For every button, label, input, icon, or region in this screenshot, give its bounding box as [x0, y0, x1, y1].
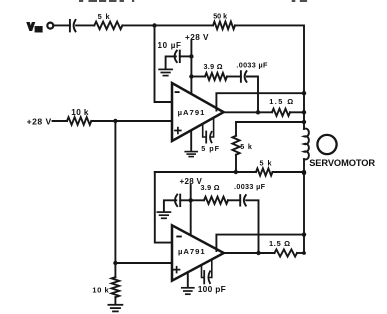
svg-text:5 k: 5 k: [260, 159, 273, 168]
resistor 5 k: [94, 12, 122, 29]
wire: [114, 263, 116, 277]
wire: [76, 24, 94, 26]
wire: [180, 55, 192, 57]
svg-text:µA791: µA791: [178, 247, 206, 256]
node B (bias divider): [113, 119, 117, 123]
op-amp U1 uA791 (upper): [172, 83, 224, 141]
wire (to lower inverting input): [155, 172, 172, 243]
svg-text:SERVOMOTOR: SERVOMOTOR: [309, 158, 375, 168]
svg-text:10 µF: 10 µF: [158, 41, 182, 50]
capacitor 10 uF (bypass): [158, 41, 182, 62]
wire: [191, 199, 204, 201]
wire: [236, 121, 304, 123]
coupling capacitor (input): [70, 20, 76, 32]
input terminal VIN: [47, 23, 53, 29]
junction: [302, 170, 306, 174]
svg-text:+28 V: +28 V: [185, 33, 209, 42]
wire: [180, 199, 191, 201]
wire (node A to upper inverting input): [155, 25, 173, 102]
wire: [191, 76, 205, 78]
svg-text:10 k: 10 k: [92, 286, 109, 295]
wire: [164, 200, 176, 211]
op-amp U2 uA791 (lower): [172, 225, 224, 280]
resistor 1.5 ohm (upper): [269, 97, 294, 116]
capacitor 100 pF (compensation): [198, 261, 226, 295]
wire: [54, 24, 70, 26]
capacitor .0033 uF (lower): [234, 182, 266, 206]
wire: [91, 120, 172, 122]
wire: [297, 252, 304, 254]
svg-text:+28 V: +28 V: [27, 117, 52, 127]
wire: [235, 155, 237, 172]
wire (snubber to output node): [247, 77, 258, 113]
junction: [302, 171, 306, 175]
junction: [302, 251, 306, 255]
servomotor body: [317, 135, 336, 154]
capacitor 5 pF (compensation): [201, 118, 220, 153]
wire (node B down to lower stage): [114, 121, 116, 263]
svg-text:1.5 Ω: 1.5 Ω: [269, 97, 294, 106]
svg-text:.0033 µF: .0033 µF: [236, 61, 268, 70]
wire (to lower non-inverting input): [115, 262, 172, 264]
wire: [273, 171, 305, 173]
ground (upper op-amp): [185, 152, 197, 157]
wire (lower output): [224, 252, 275, 254]
svg-text:5 k: 5 k: [98, 12, 111, 21]
wire (lower bootstrap to rail): [216, 235, 304, 251]
wire: [190, 185, 192, 235]
wire: [155, 24, 214, 26]
junction: [302, 91, 306, 95]
junction: [302, 110, 306, 114]
svg-text:100 pF: 100 pF: [198, 284, 226, 294]
resistor 50 k (feedback): [213, 11, 235, 29]
svg-text:5 k: 5 k: [240, 142, 252, 151]
junction: [113, 261, 117, 265]
svg-text:µA791: µA791: [178, 108, 206, 117]
wire (lower V- pin): [187, 272, 189, 287]
wire: [123, 24, 155, 26]
wire: [235, 25, 304, 128]
svg-text:10 k: 10 k: [71, 108, 89, 117]
capacitor .0033 uF (upper): [236, 61, 268, 82]
wire (upper output): [224, 111, 272, 113]
svg-text:3.9 Ω: 3.9 Ω: [201, 183, 220, 192]
resistor 3.9 ohm (upper): [204, 62, 228, 80]
wire (snubber to lower output node): [246, 200, 258, 253]
wire: [227, 76, 241, 78]
resistor 10 k (bias): [67, 108, 91, 125]
junction: [189, 54, 193, 58]
resistor 5 k (vertical): [232, 136, 252, 155]
wire: [228, 199, 240, 201]
svg-text:VIN: VIN: [28, 22, 43, 33]
svg-text:1.5 Ω: 1.5 Ω: [269, 239, 291, 248]
svg-text:.0033 µF: .0033 µF: [234, 182, 266, 191]
junction (lower output node): [256, 251, 260, 255]
junction: [189, 198, 193, 202]
resistor 10 k (to ground): [92, 277, 119, 297]
resistor 3.9 ohm (lower): [201, 183, 229, 204]
resistor 5 k (horizontal): [256, 159, 273, 176]
ground (lower op-amp): [182, 288, 194, 294]
junction: [234, 170, 238, 174]
wire (upper V- pin): [190, 131, 192, 151]
wire: [235, 122, 237, 136]
node A (summing junction): [152, 23, 156, 27]
wire: [53, 120, 68, 122]
svg-text:3.9 Ω: 3.9 Ω: [204, 62, 223, 71]
junction (upper output node): [256, 110, 260, 114]
capacitor (lower bypass): [175, 195, 180, 207]
junction: [189, 74, 193, 78]
wire (upper bootstrap to rail): [216, 93, 304, 110]
cropped page-header text fragments: [79, 0, 307, 2]
wire (middle rail): [155, 171, 256, 173]
svg-text:50 k: 50 k: [213, 11, 227, 20]
svg-text:5 pF: 5 pF: [201, 144, 220, 153]
junction: [302, 120, 306, 124]
ground (10 uF): [159, 69, 172, 75]
wire: [290, 111, 304, 113]
wire (right rail, lower): [303, 159, 305, 253]
resistor 1.5 ohm (lower): [269, 239, 297, 257]
wire: [190, 41, 192, 94]
servomotor winding (inductor): [304, 129, 309, 160]
wire: [114, 297, 116, 304]
junction: [302, 232, 306, 236]
wire: [166, 56, 176, 68]
ground (lower bypass): [157, 212, 170, 218]
ground (10 k): [108, 305, 122, 312]
